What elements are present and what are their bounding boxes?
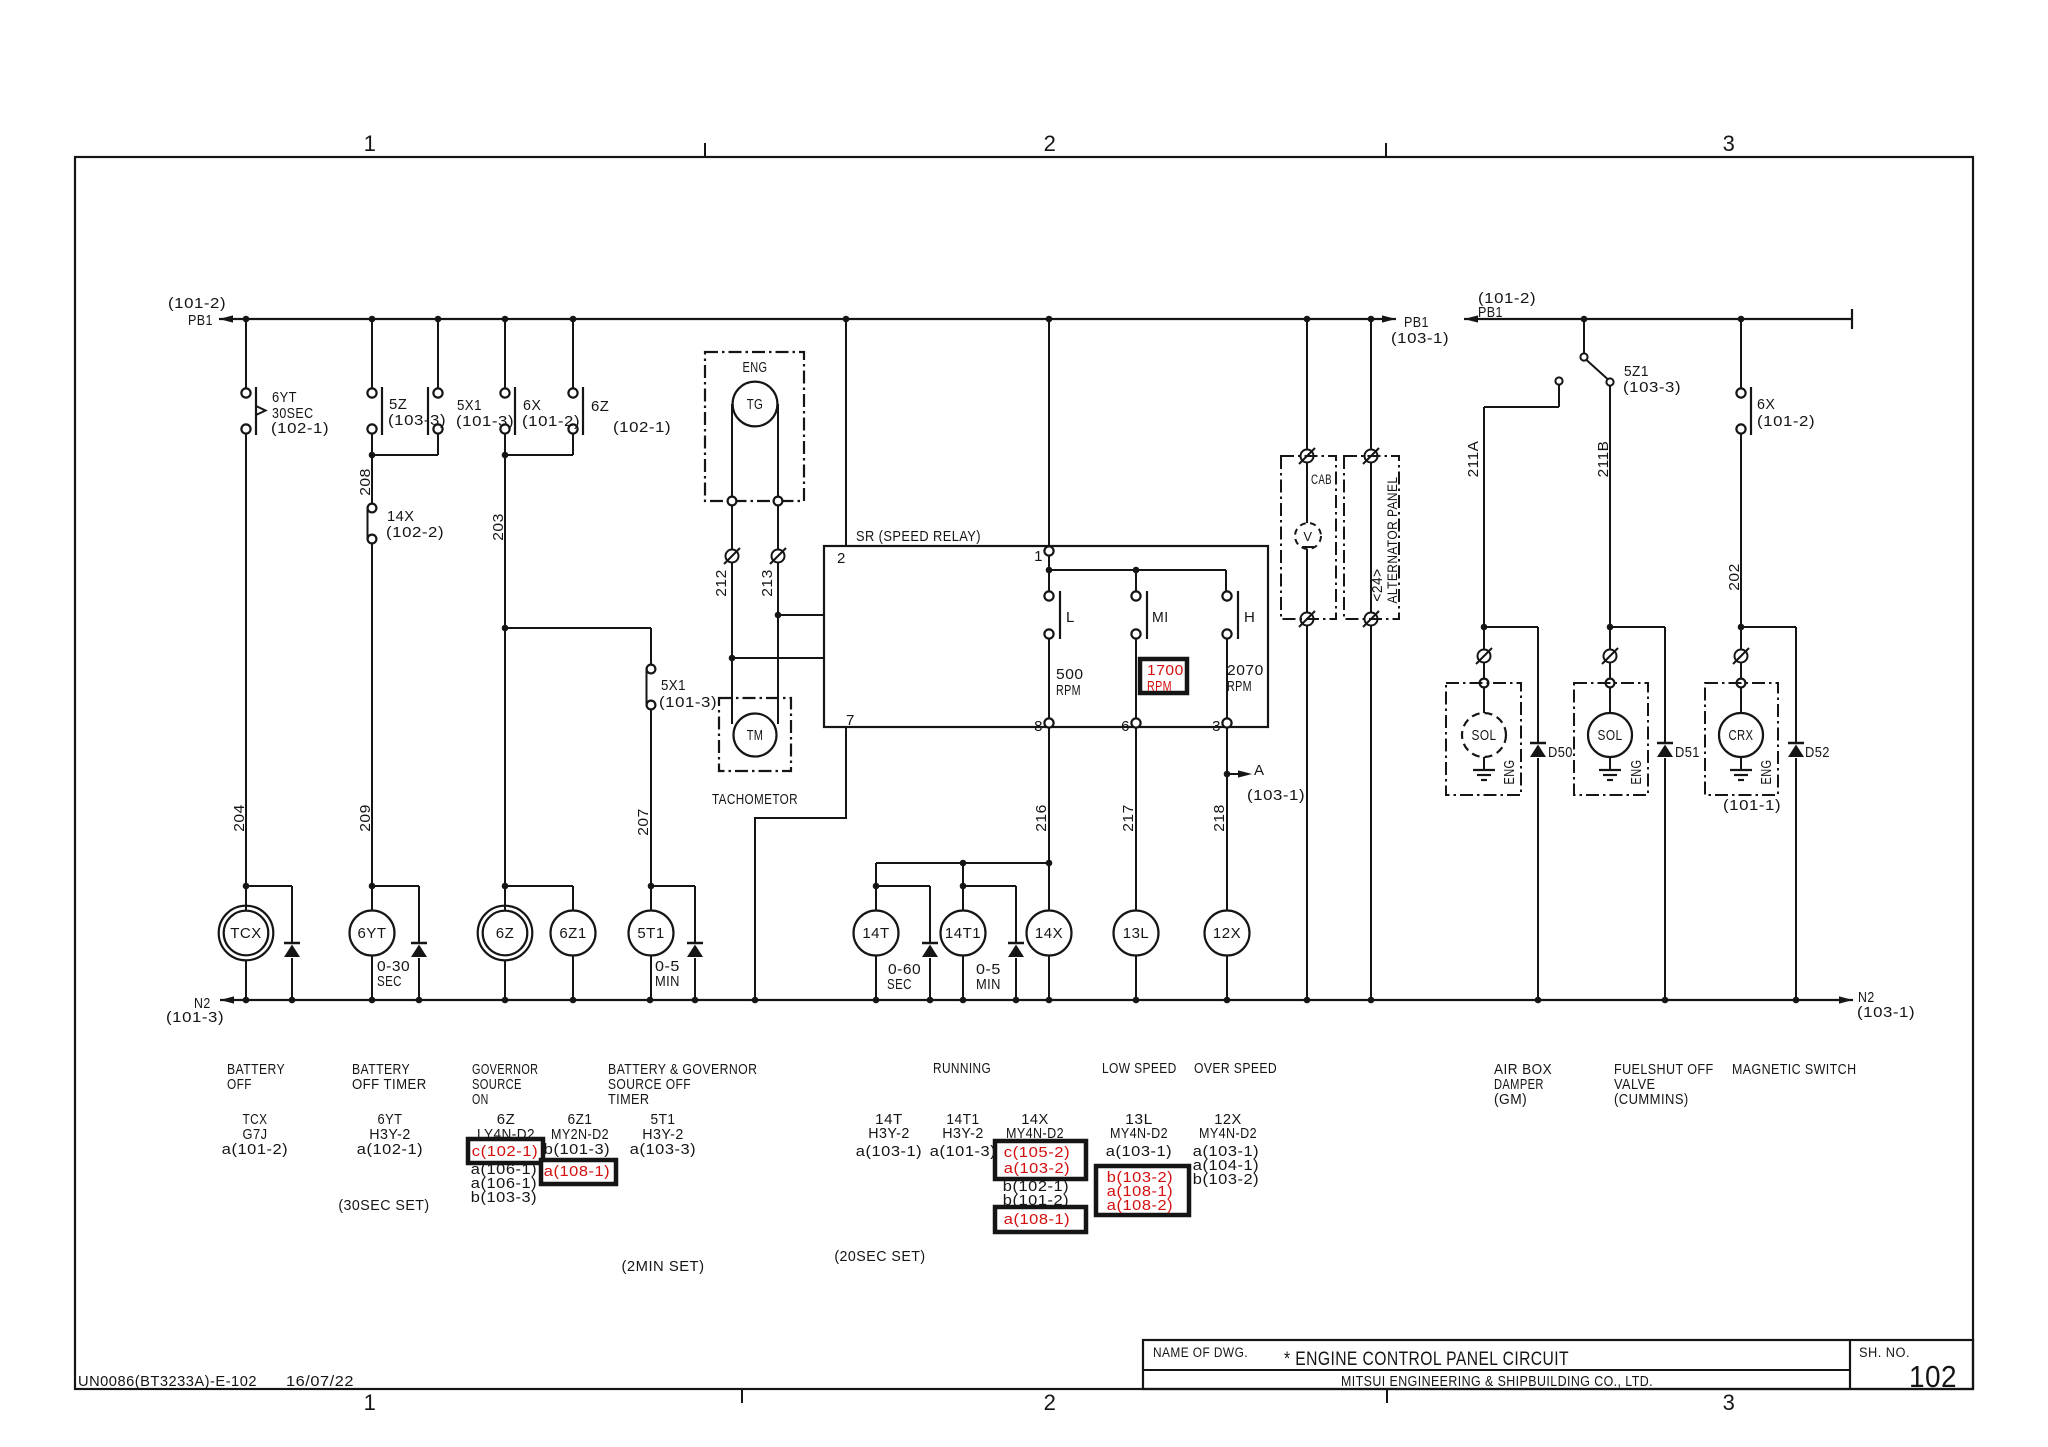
svg-text:(102-2): (102-2) xyxy=(386,524,444,541)
fuse (CRX) xyxy=(1735,650,1748,663)
svg-text:TACHOMETOR: TACHOMETOR xyxy=(712,791,798,808)
svg-text:2: 2 xyxy=(1044,131,1057,156)
node pin4 xyxy=(775,612,782,619)
svg-text:MAGNETIC SWITCH: MAGNETIC SWITCH xyxy=(1732,1061,1857,1078)
wire 212 xyxy=(731,506,733,724)
fuse on 212 xyxy=(726,550,739,563)
relay box SR (speed relay) xyxy=(824,546,1268,727)
diode (6YT) xyxy=(411,942,427,945)
wire 202 xyxy=(1740,434,1742,627)
svg-text:SEC: SEC xyxy=(377,973,402,990)
highlight box 1700 RPM xyxy=(1140,659,1187,693)
svg-text:3: 3 xyxy=(1212,718,1221,735)
wire 203 xyxy=(504,455,506,911)
svg-text:a(103-1): a(103-1) xyxy=(856,1143,922,1160)
switch 5Z1 (knife) xyxy=(1583,319,1585,353)
pin 1 xyxy=(1048,319,1050,547)
wire 218 xyxy=(1226,728,1228,911)
wire 204 xyxy=(245,434,247,911)
wire 216 xyxy=(1048,728,1050,911)
svg-text:a(103-3): a(103-3) xyxy=(630,1141,696,1158)
contact 5Z (pair) xyxy=(371,319,373,388)
svg-text:H3Y-2: H3Y-2 xyxy=(868,1125,910,1142)
magnetic switch CRX group xyxy=(1738,624,1745,631)
svg-text:1: 1 xyxy=(364,1390,377,1415)
svg-text:UN0086(BT3233A)-E-102: UN0086(BT3233A)-E-102 xyxy=(78,1373,257,1390)
svg-text:a(101-2): a(101-2) xyxy=(222,1141,288,1158)
diode (TCX) xyxy=(284,942,300,945)
svg-text:6YT: 6YT xyxy=(272,389,297,406)
wire 213 xyxy=(777,506,779,724)
svg-text:6Z: 6Z xyxy=(496,925,515,942)
svg-text:SR (SPEED RELAY): SR (SPEED RELAY) xyxy=(856,528,981,545)
contact 6YT (timer) xyxy=(245,319,247,388)
svg-text:RPM: RPM xyxy=(1056,682,1081,699)
wire 211A xyxy=(1483,407,1485,627)
svg-text:CRX: CRX xyxy=(1729,727,1754,744)
svg-text:NAME OF DWG.: NAME OF DWG. xyxy=(1153,1345,1248,1360)
svg-text:(GM): (GM) xyxy=(1494,1091,1527,1108)
svg-text:RPM: RPM xyxy=(1227,678,1252,695)
svg-text:MITSUI ENGINEERING & SHIPBUILD: MITSUI ENGINEERING & SHIPBUILDING CO., L… xyxy=(1341,1374,1653,1390)
wire alternator panel branch xyxy=(1370,319,1372,1000)
svg-text:RUNNING: RUNNING xyxy=(933,1060,991,1077)
svg-text:TCX: TCX xyxy=(230,925,262,942)
svg-text:b(101-3): b(101-3) xyxy=(544,1141,610,1158)
contact 14X xyxy=(367,507,369,540)
wire 207 xyxy=(650,709,652,911)
coil 5T1 xyxy=(629,911,674,956)
box CAB xyxy=(1281,456,1336,619)
coil 14T1 xyxy=(941,911,986,956)
svg-text:TM: TM xyxy=(747,727,764,744)
contact 5X1 (lower) xyxy=(646,668,648,706)
svg-text:a(103-2): a(103-2) xyxy=(1004,1160,1070,1177)
svg-text:5T1: 5T1 xyxy=(637,925,664,942)
svg-text:MIN: MIN xyxy=(655,973,680,990)
svg-text:c(102-1): c(102-1) xyxy=(472,1143,538,1160)
svg-text:6X: 6X xyxy=(523,397,541,414)
node TCX branch xyxy=(243,883,250,890)
svg-text:12X: 12X xyxy=(1213,925,1241,942)
fuse (alt bottom) xyxy=(1365,613,1378,626)
svg-text:SEC: SEC xyxy=(887,976,912,993)
voltmeter V xyxy=(1295,523,1321,549)
terminal (Cummins sol) xyxy=(1606,679,1615,688)
svg-text:209: 209 xyxy=(357,804,374,832)
svg-text:(101-2): (101-2) xyxy=(168,295,226,312)
svg-text:1: 1 xyxy=(1034,548,1043,565)
box ENG xyxy=(705,352,804,501)
svg-text:(103-3): (103-3) xyxy=(1623,379,1681,396)
svg-text:204: 204 xyxy=(231,804,248,832)
svg-text:b(103-3): b(103-3) xyxy=(471,1189,537,1206)
svg-text:* ENGINE CONTROL PANEL CIRCUIT: * ENGINE CONTROL PANEL CIRCUIT xyxy=(1284,1349,1569,1370)
svg-text:3: 3 xyxy=(1723,131,1736,156)
svg-text:ENG: ENG xyxy=(1758,760,1775,785)
svg-text:MY4N-D2: MY4N-D2 xyxy=(1199,1125,1257,1142)
svg-text:TG: TG xyxy=(747,396,764,413)
svg-text:a(101-3): a(101-3) xyxy=(930,1143,996,1160)
svg-text:c(105-2): c(105-2) xyxy=(1004,1144,1070,1161)
fuse (GM sol) xyxy=(1478,650,1491,663)
svg-text:2: 2 xyxy=(837,550,846,567)
svg-text:(20SEC SET): (20SEC SET) xyxy=(834,1248,925,1265)
svg-text:211A: 211A xyxy=(1465,441,1482,478)
svg-text:(103-1): (103-1) xyxy=(1857,1004,1915,1021)
diode D52 xyxy=(1788,742,1804,745)
svg-text:OVER SPEED: OVER SPEED xyxy=(1194,1060,1277,1077)
svg-text:SOL: SOL xyxy=(1472,727,1497,744)
svg-text:MY4N-D2: MY4N-D2 xyxy=(1110,1125,1168,1142)
svg-text:(102-1): (102-1) xyxy=(271,420,329,437)
svg-text:(2MIN SET): (2MIN SET) xyxy=(622,1258,705,1275)
svg-text:2: 2 xyxy=(1044,1390,1057,1415)
box SOL (GM) xyxy=(1446,683,1521,795)
svg-text:218: 218 xyxy=(1211,804,1228,832)
internal wiring xyxy=(1048,556,1050,570)
svg-text:(103-1): (103-1) xyxy=(1247,787,1305,804)
svg-text:212: 212 xyxy=(713,569,730,597)
svg-text:ON: ON xyxy=(472,1091,489,1108)
svg-text:6: 6 xyxy=(1121,718,1130,735)
svg-text:ENG: ENG xyxy=(743,359,768,376)
diode (14T) xyxy=(922,942,938,945)
svg-text:OFF TIMER: OFF TIMER xyxy=(352,1076,427,1093)
wire 217 xyxy=(1135,728,1137,911)
svg-text:(101-2): (101-2) xyxy=(1757,413,1815,430)
air box damper solenoid group xyxy=(1481,624,1488,631)
coil 14T xyxy=(854,911,899,956)
coil 6YT xyxy=(350,911,395,956)
fuse (alt top) xyxy=(1365,450,1378,463)
svg-text:213: 213 xyxy=(759,569,776,597)
diode (14T1) xyxy=(1008,942,1024,945)
svg-text:H: H xyxy=(1244,609,1255,626)
fuse (CAB top) xyxy=(1301,450,1314,463)
svg-text:8: 8 xyxy=(1034,718,1043,735)
svg-text:a(108-1): a(108-1) xyxy=(1004,1211,1070,1228)
box CRX xyxy=(1705,683,1778,795)
box SOL (Cummins) xyxy=(1574,683,1648,795)
coil 6Z xyxy=(478,906,533,961)
svg-text:H3Y-2: H3Y-2 xyxy=(942,1125,984,1142)
bus PB1 (left) xyxy=(219,318,1396,320)
contact L xyxy=(1044,591,1053,600)
svg-text:SH. NO.: SH. NO. xyxy=(1859,1345,1910,1360)
svg-text:PB1: PB1 xyxy=(188,312,213,329)
svg-text:216: 216 xyxy=(1033,804,1050,832)
svg-text:MI: MI xyxy=(1152,609,1169,626)
svg-text:14T1: 14T1 xyxy=(945,925,981,942)
svg-text:(102-1): (102-1) xyxy=(613,419,671,436)
node A tap xyxy=(1224,771,1231,778)
svg-text:SOL: SOL xyxy=(1598,727,1623,744)
running group wiring xyxy=(876,862,1049,864)
coil 12X xyxy=(1205,911,1250,956)
svg-text:5X1: 5X1 xyxy=(457,397,482,414)
svg-text:102: 102 xyxy=(1909,1359,1957,1394)
fuel shutoff solenoid group xyxy=(1607,624,1614,631)
svg-text:7: 7 xyxy=(846,712,855,729)
wire 208 xyxy=(371,455,373,503)
svg-text:5X1: 5X1 xyxy=(661,677,686,694)
svg-text:14T: 14T xyxy=(862,925,889,942)
svg-text:a(102-1): a(102-1) xyxy=(357,1141,423,1158)
pins 8 6 3 xyxy=(1044,718,1053,727)
svg-text:6Z: 6Z xyxy=(591,398,609,415)
wire 211B xyxy=(1609,386,1611,627)
diode (5T1) xyxy=(687,942,703,945)
node 6Z branch xyxy=(502,883,509,890)
svg-text:LOW SPEED: LOW SPEED xyxy=(1102,1060,1177,1077)
wire to pin 2 xyxy=(845,319,847,546)
box alternator panel xyxy=(1344,456,1399,619)
ground (CRX) xyxy=(1740,757,1742,770)
wire 209 xyxy=(371,543,373,911)
generator TG xyxy=(733,382,778,427)
svg-text:a(108-1): a(108-1) xyxy=(544,1163,610,1180)
svg-text:D52: D52 xyxy=(1805,744,1830,761)
svg-text:211B: 211B xyxy=(1595,441,1612,478)
svg-text:207: 207 xyxy=(635,808,652,836)
svg-text:MIN: MIN xyxy=(976,976,1001,993)
coil 6Z1 xyxy=(551,911,596,956)
svg-text:203: 203 xyxy=(490,513,507,541)
contacts 5X1 / 6X (pair) xyxy=(504,319,506,388)
contact 6X (right) xyxy=(1740,319,1742,388)
page border frame xyxy=(75,157,1973,1389)
svg-text:16/07/22: 16/07/22 xyxy=(286,1373,354,1390)
svg-text:14X: 14X xyxy=(1035,925,1063,942)
ground (Cummins sol) xyxy=(1609,757,1611,770)
svg-text:5Z: 5Z xyxy=(389,396,407,413)
svg-text:500: 500 xyxy=(1056,666,1084,683)
diode D50 xyxy=(1530,742,1546,745)
node 5T1 branch xyxy=(648,883,655,890)
svg-text:A: A xyxy=(1254,762,1265,779)
svg-text:1700: 1700 xyxy=(1147,662,1184,679)
svg-text:(101-3): (101-3) xyxy=(659,694,717,711)
terminal (GM sol) xyxy=(1480,679,1489,688)
svg-text:a(108-2): a(108-2) xyxy=(1107,1197,1173,1214)
svg-text:(30SEC SET): (30SEC SET) xyxy=(338,1197,429,1214)
svg-text:a(103-1): a(103-1) xyxy=(1106,1143,1172,1160)
svg-text:TIMER: TIMER xyxy=(608,1091,650,1108)
fuse on 213 xyxy=(772,550,785,563)
svg-text:3: 3 xyxy=(1723,1390,1736,1415)
ground (GM sol) xyxy=(1483,757,1485,770)
coil CRX xyxy=(1719,713,1763,757)
terminal (CRX) xyxy=(1737,679,1746,688)
svg-text:217: 217 xyxy=(1120,804,1137,832)
svg-text:PB1: PB1 xyxy=(1478,304,1503,321)
coil 13L xyxy=(1114,911,1159,956)
node 6YT branch xyxy=(369,883,376,890)
svg-text:(103-1): (103-1) xyxy=(1391,330,1449,347)
svg-text:2070: 2070 xyxy=(1227,662,1264,679)
svg-text:(CUMMINS): (CUMMINS) xyxy=(1614,1091,1689,1108)
svg-text:L: L xyxy=(1066,609,1075,626)
svg-text:ALTERNATOR PANEL: ALTERNATOR PANEL xyxy=(1384,477,1400,604)
solenoid SOL (GM) xyxy=(1462,713,1506,757)
contact MI xyxy=(1131,591,1140,600)
svg-text:D50: D50 xyxy=(1548,744,1573,761)
svg-text:202: 202 xyxy=(1726,563,1743,591)
svg-text:14X: 14X xyxy=(387,508,415,525)
solenoid SOL (Cummins) xyxy=(1588,713,1632,757)
svg-text:ENG: ENG xyxy=(1501,760,1518,785)
wire CAB branch xyxy=(1306,319,1308,1000)
coil 14X xyxy=(1027,911,1072,956)
svg-text:208: 208 xyxy=(357,468,374,496)
fuse (Cummins sol) xyxy=(1604,650,1617,663)
node pin5 xyxy=(729,655,736,662)
svg-text:(101-3): (101-3) xyxy=(166,1009,224,1026)
svg-text:V: V xyxy=(1303,529,1312,544)
tachometer TM box xyxy=(719,698,791,771)
bus PB1 (right) xyxy=(1464,318,1852,320)
svg-text:b(103-2): b(103-2) xyxy=(1193,1171,1259,1188)
bus N2 xyxy=(220,999,1853,1001)
svg-text:RPM: RPM xyxy=(1147,678,1172,695)
svg-text:(101-2): (101-2) xyxy=(522,413,580,430)
contact H xyxy=(1222,591,1231,600)
wire from pin 7 to N2 xyxy=(755,727,846,1000)
svg-text:OFF: OFF xyxy=(227,1076,252,1093)
svg-text:CAB: CAB xyxy=(1311,472,1332,487)
svg-text:6Z1: 6Z1 xyxy=(559,925,586,942)
svg-text:ENG: ENG xyxy=(1628,760,1645,785)
diode D51 xyxy=(1657,742,1673,745)
svg-text:(101-1): (101-1) xyxy=(1723,797,1781,814)
terminals TG xyxy=(728,497,737,506)
svg-text:13L: 13L xyxy=(1123,925,1150,942)
svg-text:D51: D51 xyxy=(1675,744,1700,761)
svg-text:5Z1: 5Z1 xyxy=(1624,363,1649,380)
coil TCX xyxy=(219,906,274,961)
svg-text:(103-3): (103-3) xyxy=(388,412,446,429)
fuse (CAB bottom) xyxy=(1301,613,1314,626)
svg-text:6X: 6X xyxy=(1757,396,1775,413)
title block xyxy=(1143,1340,1973,1389)
node to 5T1 branch xyxy=(502,625,509,632)
svg-text:PB1: PB1 xyxy=(1404,314,1429,331)
svg-text:1: 1 xyxy=(364,131,377,156)
svg-text:6YT: 6YT xyxy=(357,925,386,942)
svg-text:(101-3): (101-3) xyxy=(456,413,514,430)
